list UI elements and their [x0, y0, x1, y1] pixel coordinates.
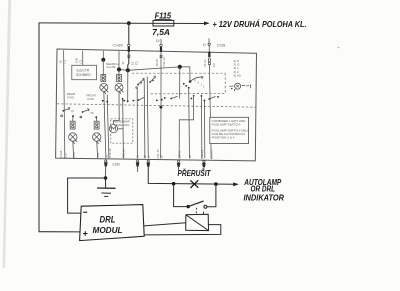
node: switch pivot: [187, 205, 190, 208]
dashed line rotary top: [132, 72, 225, 74]
switch rear fog: [62, 110, 64, 112]
arrow head autolamp: [233, 182, 239, 186]
wire: prerusit feed: [148, 167, 236, 185]
pin stub into electr box: [82, 51, 84, 66]
svg-text:MODUL: MODUL: [93, 225, 123, 235]
svg-text:POSITION 1 & 4: POSITION 1 & 4: [212, 135, 235, 139]
wire: top +12V feed: [39, 22, 205, 25]
wire: cluster drop 144: [143, 80, 146, 159]
lamp A: [100, 83, 108, 91]
DRL modul box: [80, 205, 145, 241]
switch lever: [188, 201, 203, 207]
wire: DRL out to relay: [144, 223, 186, 226]
svg-text:C2: C2: [212, 63, 216, 67]
node: ground junction: [104, 176, 108, 180]
motor M: [109, 125, 117, 133]
svg-text:C11-13: C11-13: [200, 149, 204, 158]
wire: leveling return: [122, 99, 125, 159]
relay diagonal: [186, 215, 208, 230]
headlamp leveling dashed box: [111, 119, 133, 143]
relay top tick: [202, 212, 204, 215]
node: bus switch drop: [178, 65, 182, 69]
svg-text:C13-18: C13-18: [108, 148, 112, 158]
wire: relay return loop: [144, 225, 220, 235]
svg-text:5) AU: 5) AU: [234, 73, 242, 77]
connector C330 pin: [105, 160, 107, 162]
svg-text:S: S: [147, 156, 151, 158]
relay box: [186, 214, 209, 230]
scan left edge band: [3, 0, 12, 268]
svg-text:TP: TP: [71, 110, 75, 114]
wire: motor to pin: [118, 128, 123, 130]
dashed line rotary right: [224, 73, 226, 93]
switch contact: [204, 205, 207, 208]
switch levers in dot row: [138, 96, 215, 100]
wire: CX28 down to bottom pin: [209, 65, 211, 159]
svg-text:TP: TP: [90, 111, 94, 115]
switch cluster mid-2: [149, 81, 151, 83]
resistor D: [94, 121, 99, 129]
wire: stub 178: [178, 167, 180, 171]
svg-text:FOGLAMP SWITCH:: FOGLAMP SWITCH:: [212, 122, 241, 126]
wire: drop 204: [203, 101, 205, 159]
svg-text:PŘERUŠIT: PŘERUŠIT: [178, 169, 212, 178]
wire: left outer vertical: [38, 23, 40, 232]
connector symbol at C1429: [128, 43, 211, 58]
inner control module box: [56, 49, 257, 161]
pin stub column B: [118, 51, 120, 69]
speck: [338, 47, 340, 49]
wire: + feed into DRL modul: [39, 231, 79, 233]
node: bypass right: [214, 182, 218, 186]
svg-text:C11-13: C11-13: [210, 150, 214, 159]
svg-text:+ 12V DRUHÁ POLOHA KL.: + 12V DRUHÁ POLOHA KL.: [213, 19, 307, 29]
wire: stub 137: [137, 167, 139, 172]
resistor C: [70, 121, 75, 129]
svg-text:C2: C2: [135, 61, 139, 65]
wire: drop 201: [200, 96, 203, 158]
pin labels top inside box: [59, 57, 217, 67]
wire: bus inside top: [119, 67, 190, 82]
info text box: [210, 117, 249, 143]
svg-text:C1429: C1429: [113, 43, 123, 47]
svg-text:DRL: DRL: [100, 214, 116, 224]
svg-text:FOG: FOG: [68, 95, 75, 99]
wire: ground drop: [105, 178, 107, 188]
arrow head to +12V: [204, 21, 210, 25]
wire: lamp C return: [72, 141, 75, 158]
wire: front fog lamp column: [95, 117, 97, 121]
svg-text:15: 15: [156, 39, 160, 43]
svg-text:56: 56: [136, 154, 140, 158]
resistor A: [101, 75, 106, 82]
svg-text:SCHMIED: SCHMIED: [76, 73, 91, 77]
svg-text:31: 31: [121, 61, 125, 65]
wire: drop 188: [188, 88, 191, 158]
svg-text:C12-13: C12-13: [122, 148, 126, 158]
minus terminal: [83, 211, 87, 213]
svg-text:31-11: 31-11: [203, 59, 207, 67]
ELEKTR SCHMIED box: [72, 65, 97, 79]
dashed line main D2: [57, 104, 256, 107]
svg-text:C11-13: C11-13: [162, 57, 166, 67]
position list 1)P..5)AU: [234, 59, 242, 77]
svg-text:K10: K10: [72, 152, 76, 157]
svg-text:INDIKATOR: INDIKATOR: [244, 193, 285, 203]
node: dashed crossing dot: [159, 106, 162, 109]
foglamp rotary switch: [229, 83, 250, 91]
connector C1429: [128, 47, 129, 71]
connector 148: [147, 160, 149, 162]
lamp D: [93, 133, 101, 141]
pin stub 18/C1: [64, 50, 65, 158]
CX28 inline squares: [208, 59, 210, 61]
dashed actuator link: [195, 208, 197, 214]
connector 178: [178, 160, 180, 162]
svg-text:C330: C330: [112, 162, 120, 166]
svg-text:58R-B: 58R-B: [178, 151, 182, 159]
switch cluster mid-left: [137, 84, 139, 86]
wire: lamp B to leveling: [114, 91, 120, 124]
wire: lamp A return pair: [107, 95, 109, 159]
svg-text:30-15: 30-15: [155, 59, 159, 67]
wire: drop 147: [147, 77, 148, 159]
wire: CX28 into box: [208, 38, 210, 43]
wire: bus drop to contact row: [127, 70, 129, 101]
plus terminal: [83, 231, 88, 236]
labels P 0 1 2 at lever: [194, 80, 205, 89]
connector symbol at 15: [160, 44, 162, 46]
svg-text:C1: C1: [63, 59, 67, 63]
wire: column B: [118, 70, 120, 75]
connector 203: [203, 160, 205, 162]
wire: bypass left drop: [174, 184, 188, 207]
connector 137: [137, 160, 139, 162]
wire: lamp D return: [97, 141, 98, 158]
dashed line rotary bottom: [151, 93, 226, 95]
svg-text:11: 11: [203, 43, 207, 47]
svg-text:FOG: FOG: [88, 97, 95, 101]
pin stub search illum feed: [102, 51, 104, 60]
resistor B: [117, 75, 122, 82]
main light switch lever: [189, 80, 192, 83]
lamp C: [69, 133, 77, 141]
node: dot row P: [193, 95, 195, 97]
wire: jog to pin 179: [179, 96, 193, 159]
wire: C330 to ground node: [105, 166, 107, 178]
lamp B: [115, 83, 123, 91]
svg-text:C17: C17: [63, 152, 67, 158]
switch front fog: [82, 111, 84, 113]
wire: stub 203: [203, 167, 205, 170]
connector bells below box: [104, 160, 206, 167]
connector symbol CX28: [208, 43, 210, 45]
node: column A top: [101, 58, 105, 62]
wire: drop to C1429: [128, 23, 130, 44]
node: fuse feed junction: [127, 21, 131, 25]
svg-text:C1: C1: [78, 59, 82, 63]
svg-text:CX28: CX28: [217, 44, 226, 48]
svg-text:ILLUM: ILLUM: [107, 65, 116, 69]
svg-text:58: 58: [160, 155, 164, 159]
fuse F115 body: [153, 20, 174, 26]
wire: minus branch to DRL: [68, 178, 106, 213]
wire: rear fog lamp column: [72, 116, 74, 121]
wire: lamp A return: [104, 91, 106, 158]
svg-text:7,5A: 7,5A: [152, 28, 170, 37]
wire: column A: [102, 60, 104, 75]
bottom pin labels inside box: [59, 148, 214, 159]
CX28 pin blob: [208, 52, 210, 58]
ground: [97, 187, 116, 189]
node: bus B: [117, 67, 121, 71]
node: bypass left: [172, 182, 176, 186]
svg-text:K11: K11: [96, 152, 100, 157]
wire: feed 15 into box: [160, 39, 162, 44]
handwritten X break mark: [190, 180, 198, 188]
wire: bus drop to contacts: [179, 67, 181, 99]
wire: cluster drop 137: [136, 88, 138, 158]
switch contact dot row: [102, 95, 219, 103]
node: bus C1429: [126, 68, 130, 72]
svg-text:58: 58: [188, 155, 192, 159]
wire: bypass right drop: [207, 184, 216, 207]
